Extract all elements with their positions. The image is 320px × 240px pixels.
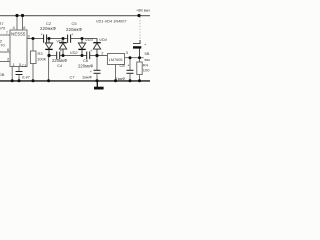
svg-text:+: +: [90, 48, 93, 53]
svg-text:+: +: [90, 69, 93, 74]
svg-text:3: 3: [28, 34, 31, 39]
svg-text:C1: C1: [22, 63, 28, 68]
svg-text:C4: C4: [57, 63, 63, 68]
svg-text:220мкФ: 220мкФ: [66, 27, 83, 32]
svg-text:R3: R3: [38, 51, 44, 56]
svg-text:220мкФ: 220мкФ: [40, 26, 57, 31]
svg-text:C6: C6: [83, 58, 89, 63]
svg-text:7: 7: [6, 30, 9, 35]
svg-text:0В: 0В: [0, 72, 5, 77]
svg-text:8: 8: [23, 25, 26, 30]
svg-text:100К: 100К: [37, 57, 47, 62]
svg-text:0,47: 0,47: [22, 75, 31, 80]
svg-text:LM7905: LM7905: [109, 58, 123, 62]
svg-text:VD4: VD4: [99, 37, 108, 42]
svg-text:NE555: NE555: [11, 31, 26, 36]
svg-text:+: +: [71, 32, 74, 37]
svg-text:+: +: [144, 42, 147, 47]
svg-text:VD1-VD4 1N4007: VD1-VD4 1N4007: [96, 19, 127, 23]
svg-text:+: +: [41, 32, 44, 37]
svg-text:VD3: VD3: [85, 37, 94, 42]
svg-text:VD2: VD2: [70, 50, 79, 55]
svg-text:2: 2: [101, 50, 104, 55]
svg-text:1мкФ: 1мкФ: [82, 74, 92, 79]
svg-text:220мкФ: 220мкФ: [78, 63, 93, 68]
svg-text:C8: C8: [120, 63, 126, 68]
svg-text:C5: C5: [72, 21, 78, 26]
svg-text:5В: 5В: [145, 51, 150, 56]
svg-text:VD1: VD1: [56, 39, 64, 44]
svg-text:3: 3: [126, 50, 129, 55]
svg-text:вых: вых: [145, 57, 151, 62]
svg-text:+8В вых: +8В вых: [136, 8, 150, 12]
svg-text:1мкФ: 1мкФ: [116, 76, 126, 81]
svg-text:100: 100: [143, 68, 150, 73]
svg-text:4: 4: [13, 25, 16, 30]
svg-text:C7: C7: [70, 74, 76, 79]
svg-text:470: 470: [0, 42, 5, 47]
